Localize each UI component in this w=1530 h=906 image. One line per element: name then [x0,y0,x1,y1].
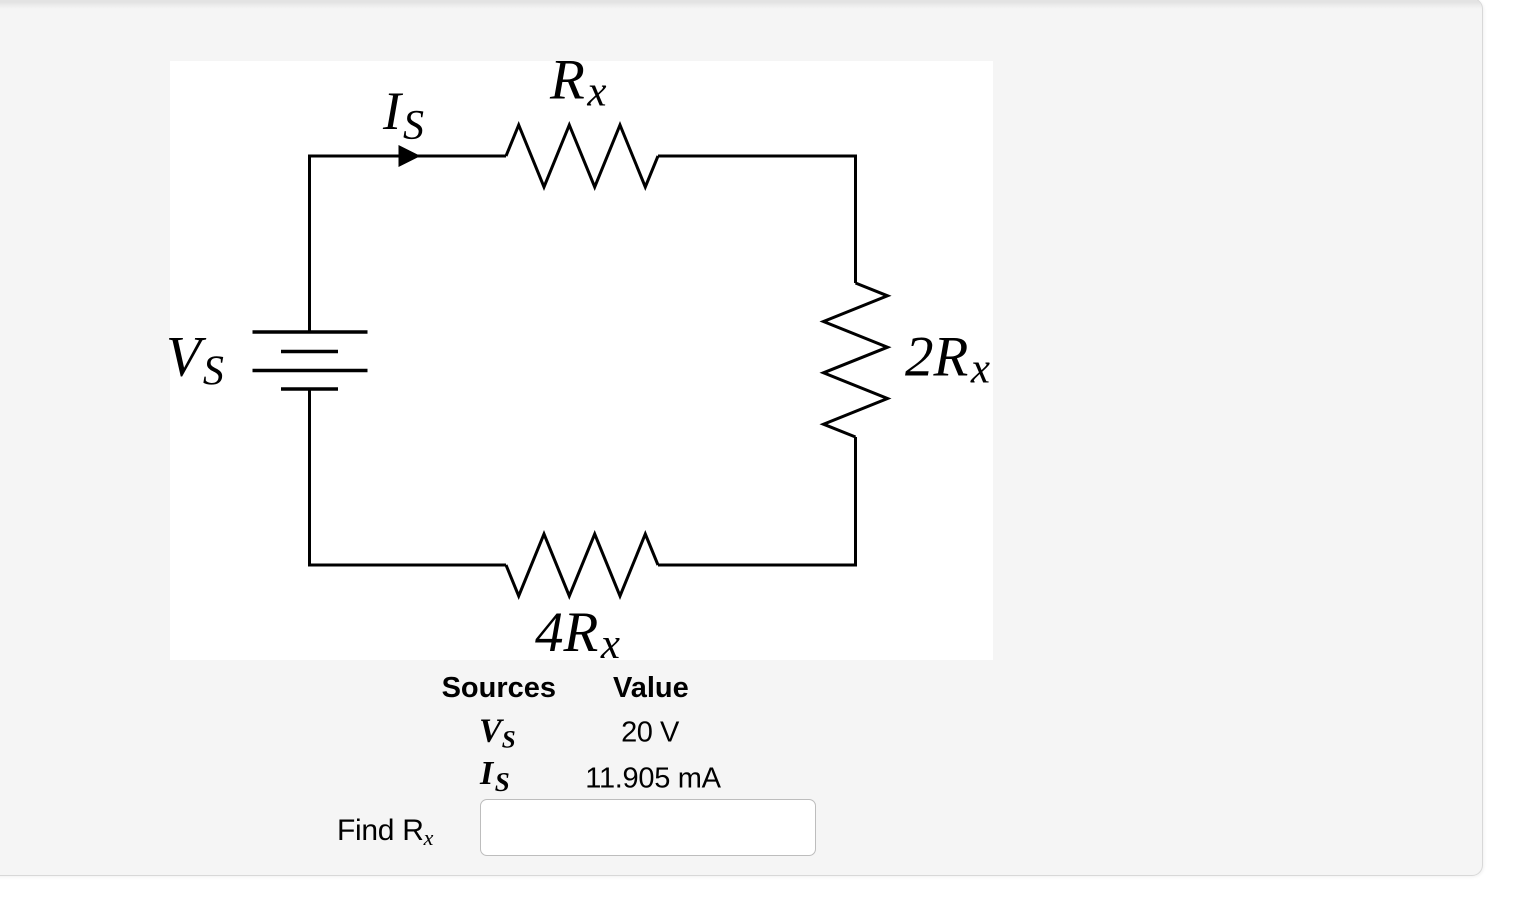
svg-text:11.905 mA: 11.905 mA [585,763,721,795]
svg-text:20 V: 20 V [621,717,680,749]
resistor 4R_x [506,534,658,596]
svg-text:4Rx: 4Rx [535,601,620,668]
svg-text:IS: IS [479,755,510,797]
resistor R_x [506,125,658,187]
wire left vertical top (battery + to top-left corner) [308,156,311,332]
current arrow IS [399,145,421,167]
wire top (corner to Is arrow to resistor Rx) [308,155,506,158]
svg-text:VS: VS [479,712,516,753]
svg-text:Sources: Sources [442,672,556,704]
wire bottom left (4Rx to bottom-left corner and up) [310,389,507,565]
wire top right + right vertical down to 2Rx [658,156,856,283]
svg-text:2Rx: 2Rx [905,325,990,392]
circuit white canvas [170,61,993,660]
svg-text:Rx: Rx [549,49,606,116]
resistor 2R_x [824,283,888,437]
svg-text:VS: VS [166,326,224,395]
wire right vertical bottom (2Rx to bottom-right corner) [658,437,856,565]
svg-text:Value: Value [613,672,689,704]
answer input field [480,799,816,856]
svg-text:IS: IS [382,81,424,149]
svg-text:Find Rx: Find Rx [337,814,434,850]
battery source VS plates [253,332,368,389]
